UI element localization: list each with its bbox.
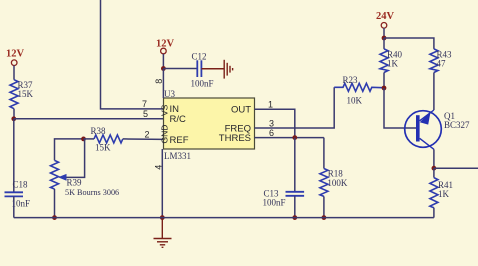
ground (below bus) (154, 218, 172, 248)
transistor Q1 BC327 (405, 110, 442, 149)
node junction 24V split (382, 36, 387, 41)
wire R38 to REF pin2 (123, 138, 164, 141)
wire R38 left lead (84, 138, 95, 140)
node junction collector/R41 (432, 166, 437, 171)
wire collector to right edge (434, 167, 478, 169)
svg-text:R23: R23 (343, 75, 359, 85)
wire R37 to node (13, 109, 15, 119)
wire R40 to node (383, 73, 385, 89)
wire R39 to bus (54, 189, 56, 218)
svg-text:15K: 15K (18, 89, 34, 99)
svg-text:REF: REF (170, 135, 189, 146)
node junction R40/R23/base (382, 86, 387, 91)
power port 24V (376, 11, 395, 28)
resistor R41 (430, 178, 438, 208)
wiper wire of R39 (66, 139, 85, 178)
svg-text:C12: C12 (192, 52, 207, 62)
svg-text:3: 3 (269, 119, 274, 129)
wire pin4 GND to bus (161, 149, 163, 218)
wire pin6 THRES (255, 137, 324, 139)
svg-text:1K: 1K (438, 189, 450, 199)
wire 24V node to R40 (383, 38, 385, 49)
wire pot-top to R38 (55, 139, 84, 161)
wire 24V to R43 (384, 38, 434, 49)
power port 12V (left) (6, 49, 25, 66)
svg-text:LM331: LM331 (164, 151, 191, 161)
svg-text:R18: R18 (328, 168, 344, 178)
svg-text:R38: R38 (91, 126, 107, 136)
potentiometer R39 (51, 160, 59, 189)
resistor R23 (334, 83, 384, 91)
svg-text:6: 6 (269, 128, 274, 138)
wire R43 to Q1 emitter (433, 73, 435, 111)
wire C18 to bus (13, 196, 15, 217)
wire pin8 vertical (162, 69, 164, 99)
resistor R18 (320, 169, 328, 197)
svg-text:24V: 24V (376, 11, 395, 22)
resistor R38 (94, 135, 123, 143)
svg-text:VS: VS (160, 104, 170, 116)
node junction R39/bus (52, 215, 57, 220)
wire pin5 R/C long horizontal (14, 118, 164, 120)
wire node to R41 (433, 168, 435, 177)
svg-text:12V: 12V (6, 49, 25, 60)
svg-text:THRES: THRES (219, 133, 251, 144)
node junction R37/pin5 (11, 116, 16, 121)
node junction 12V/C12/pin8 (161, 66, 166, 71)
node junction R18/bus (322, 215, 327, 220)
svg-text:GND: GND (160, 125, 170, 144)
svg-text:100K: 100K (327, 178, 348, 188)
wire C12 to ground (201, 68, 224, 70)
op-amp U3 body (LM331) (164, 98, 255, 149)
wire pin3 FREQ to R23 (255, 87, 335, 128)
svg-text:15K: 15K (95, 143, 111, 153)
svg-text:5: 5 (143, 109, 148, 119)
node junction C13/bus (292, 215, 297, 220)
wire pin7 vertical from top (101, 0, 164, 109)
wire C13 to bus (294, 196, 296, 218)
svg-text:1: 1 (268, 100, 273, 110)
resistor R37 (10, 80, 18, 109)
wire node down to C13 (294, 138, 296, 192)
wire R41 to bus (433, 208, 435, 218)
capacitor C12 (197, 60, 201, 77)
svg-text:C18: C18 (13, 180, 29, 190)
svg-text:1K: 1K (387, 59, 399, 69)
svg-text:7: 7 (142, 99, 147, 109)
wire ground bus (14, 217, 434, 219)
svg-text:OUT: OUT (231, 105, 251, 116)
node junction pin4/bus (160, 215, 165, 220)
wire R18 to bus (323, 196, 325, 217)
node junction pin1/pin6 (292, 135, 297, 140)
ground (sideways, right of C12) (224, 60, 232, 79)
node junction R38/wiper (81, 137, 86, 142)
svg-text:R/C: R/C (170, 114, 187, 125)
wire left rail down to C18 (13, 119, 15, 193)
svg-text:100nF: 100nF (263, 198, 286, 208)
svg-text:2: 2 (145, 130, 150, 140)
svg-text:12V: 12V (156, 39, 175, 50)
wire Q1 collector down (433, 149, 435, 168)
svg-text:8: 8 (154, 79, 164, 84)
wire pin1 OUT (255, 109, 295, 137)
wire 12V to R37 (13, 65, 15, 79)
capacitor C18 (5, 192, 24, 196)
svg-text:10K: 10K (347, 96, 363, 106)
resistor R40 (380, 49, 388, 73)
wire node to Q1 base (384, 88, 416, 128)
wire pin6 ext down to R18 (323, 138, 325, 169)
power port 12V (pin 8) (156, 39, 175, 54)
capacitor C13 (286, 192, 305, 196)
svg-text:BC327: BC327 (444, 120, 470, 130)
svg-text:47: 47 (437, 59, 447, 69)
wire 12V to pin8 node (162, 54, 164, 69)
svg-text:5K Bourns 3006: 5K Bourns 3006 (65, 188, 119, 197)
svg-text:U3: U3 (164, 89, 175, 99)
wire 24V down (383, 28, 385, 38)
wiper arrow of R39 (58, 174, 67, 181)
svg-text:R39: R39 (67, 178, 83, 188)
svg-text:100nF: 100nF (191, 79, 214, 89)
resistor R43 (430, 49, 438, 73)
wire node to C12 (163, 68, 197, 70)
